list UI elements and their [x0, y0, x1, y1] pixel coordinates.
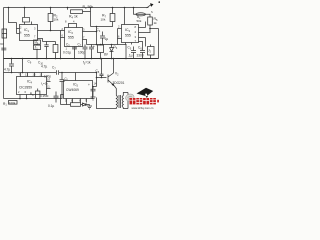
capacitor C12 on left rail	[1, 48, 6, 50]
potentiometer RP above IC1	[23, 18, 30, 23]
svg-text:100k: 100k	[9, 101, 16, 105]
transformer T primary	[116, 96, 117, 108]
svg-text:+: +	[88, 83, 90, 87]
capacitor C15	[100, 59, 104, 78]
capacitor C16 to ground	[91, 87, 96, 97]
wire IC1 right pin3	[38, 30, 51, 32]
wire IC3 right pins	[139, 28, 151, 47]
diode D4	[81, 103, 90, 106]
capacitor C9 electrolytic	[9, 59, 14, 73]
svg-text:S: S	[151, 10, 153, 14]
wire top rail branch x64	[67, 8, 69, 10]
resistor R1	[9, 101, 18, 105]
svg-text:CW4069: CW4069	[66, 88, 79, 92]
wire IC3 left pins	[118, 29, 122, 45]
wire base net	[97, 73, 107, 87]
wire collector	[113, 59, 115, 74]
watermark red characters	[130, 98, 156, 104]
node junctions mid rail	[11, 58, 13, 60]
wire IC5 bottom net	[61, 104, 71, 106]
svg-text:CIC2859: CIC2859	[19, 86, 32, 90]
svg-text:50k: 50k	[137, 19, 142, 23]
capacitor C11	[131, 47, 136, 59]
wire top supply rail	[4, 7, 149, 9]
node junction x124	[124, 7, 126, 9]
node corner dot	[158, 1, 160, 3]
wire bottom-left rail	[4, 98, 63, 100]
svg-text:1k: 1k	[154, 21, 158, 25]
wire IC3 pin to rail	[124, 8, 126, 25]
wire IC5 top stub	[75, 73, 77, 81]
wire IC5 left pin	[61, 95, 64, 105]
wire IC2 left pins	[61, 31, 65, 59]
svg-text:100p: 100p	[78, 51, 85, 55]
wire net y44	[87, 44, 127, 46]
battery GB left	[2, 29, 7, 38]
resistor R6	[36, 91, 40, 99]
wire pin3 net to IC2	[38, 31, 61, 42]
svg-text:+: +	[93, 45, 95, 49]
svg-text:555: 555	[68, 36, 74, 40]
transformer T secondary	[122, 96, 123, 108]
capacitor CZ	[44, 42, 48, 59]
op-amp IC1 555 box	[20, 25, 38, 41]
wire x22 rail to rail	[22, 59, 24, 73]
node junction x133	[133, 7, 135, 9]
ground 2	[91, 97, 96, 100]
svg-text:555: 555	[125, 34, 131, 38]
wire to fuse	[134, 8, 137, 15]
diode D1	[34, 40, 41, 44]
svg-text:1µ: 1µ	[105, 37, 109, 41]
resistor R4	[53, 45, 58, 53]
svg-text:0.15M: 0.15M	[40, 94, 49, 98]
wire IC5 right pin	[93, 86, 97, 88]
wire IC4 bottom pins	[20, 95, 27, 99]
fuse FU	[136, 13, 146, 16]
wire down at x112	[112, 8, 114, 14]
wire IC1 pin8 to rail	[24, 8, 26, 18]
svg-text:555: 555	[24, 34, 30, 38]
resistor R9 box	[98, 45, 104, 53]
resistor R8	[71, 103, 81, 107]
node junction x112	[112, 7, 114, 9]
transformer core	[119, 95, 121, 108]
capacitor C5 timing	[72, 47, 77, 59]
capacitor C14	[60, 73, 65, 99]
svg-text:3DG201: 3DG201	[113, 81, 125, 85]
node top-left junction	[8, 7, 10, 9]
svg-text:4.7µ: 4.7µ	[41, 65, 47, 69]
ground	[87, 105, 92, 110]
svg-text:10k: 10k	[54, 18, 59, 22]
wire J1 to rail	[36, 50, 38, 59]
resistor R2	[48, 14, 53, 22]
capacitor C13 coupling	[57, 70, 59, 74]
wire right verticals	[146, 22, 151, 47]
op-amp IC2 555 box	[65, 28, 83, 47]
capacitor C10	[54, 92, 59, 103]
op-amp IC5 box	[64, 81, 93, 99]
wire IC4 right pins	[47, 82, 51, 89]
wire lower rail	[4, 72, 97, 74]
wire IC5 bottom pins	[67, 99, 87, 105]
node junction x24	[24, 7, 26, 9]
node junction R2 output	[50, 30, 52, 32]
wire mid rail	[4, 58, 159, 60]
capacitor C8 electrolytic	[89, 45, 94, 59]
spark lamp gray oval	[125, 93, 135, 102]
wire secondary leads	[123, 93, 128, 109]
wire from top rail down at x=8	[9, 8, 17, 23]
text labels	[0, 5, 158, 108]
resistor R7	[110, 14, 115, 22]
watermark registered mark	[157, 100, 159, 103]
svg-text:100p: 100p	[44, 75, 51, 79]
relay J1	[34, 45, 41, 49]
wire IC2 right pins	[83, 32, 97, 45]
svg-text:4.7µ: 4.7µ	[4, 68, 10, 72]
wire R7 to C4 net	[91, 22, 113, 32]
svg-text:0.1µ: 0.1µ	[48, 104, 54, 108]
svg-text:.1µ: .1µ	[128, 54, 133, 58]
wire R2 to node	[50, 22, 52, 31]
wire IC4 top pins	[21, 73, 42, 77]
capacitor C4 electrolytic	[100, 32, 105, 45]
resistor R5	[148, 17, 153, 25]
resistor R3	[71, 10, 83, 14]
svg-text:www.dzfsy.com.cn: www.dzfsy.com.cn	[132, 106, 154, 110]
capacitor C6	[140, 47, 145, 59]
wire fuse to R5	[146, 14, 151, 17]
svg-text:6V: 6V	[0, 42, 4, 46]
transistor V2 3DG201	[108, 73, 114, 86]
wire RP to IC1	[25, 22, 32, 25]
capacitor C7 timing	[83, 45, 88, 59]
watermark logo black cap	[137, 88, 154, 98]
relay J2	[148, 47, 155, 56]
wire R5 down to right rail	[150, 25, 159, 29]
wire IC3 bottom stubs	[126, 43, 132, 59]
IC4 box CIC2859	[17, 77, 47, 95]
antenna arrow top right	[147, 4, 152, 8]
svg-text:10k: 10k	[101, 18, 106, 22]
wire left rail	[3, 8, 5, 99]
wire D1 to J1	[36, 43, 38, 46]
wire to resistor R2	[50, 8, 52, 14]
node junction x50	[50, 7, 52, 9]
wire primary bottom	[97, 98, 117, 109]
svg-text:3300: 3300	[137, 54, 144, 58]
wire emitter to transformer	[114, 86, 116, 96]
node junction x96	[96, 31, 98, 33]
svg-text:0.01µ: 0.01µ	[63, 51, 71, 55]
node junction x90	[90, 7, 92, 9]
wire IC1 left pins	[17, 23, 20, 34]
wire IC2 top pins	[69, 24, 77, 28]
zener D3	[110, 45, 114, 59]
wire resistor R3 leads	[83, 8, 91, 27]
wire x96 down	[96, 32, 98, 45]
op-amp IC3 555 box	[122, 25, 139, 43]
wire R4	[43, 42, 56, 59]
